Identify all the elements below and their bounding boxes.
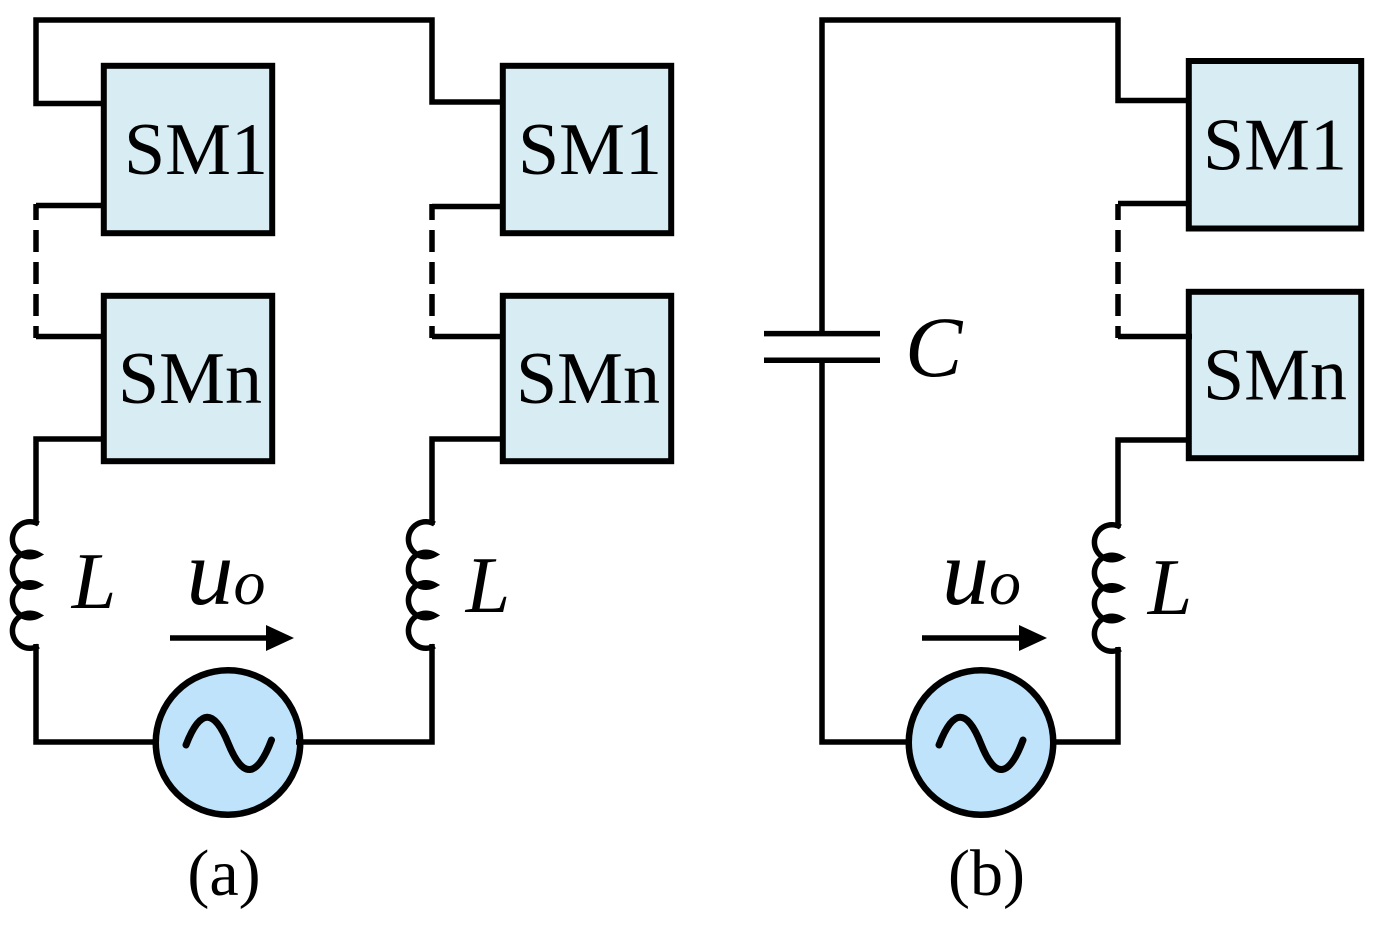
wire: dashed link SM1..SMn (b)	[1115, 204, 1121, 338]
ac source sine symbol (b)	[939, 717, 1023, 769]
wire: bottom rail right of source (a)	[296, 644, 432, 742]
wire: capacitor down to bottom rail (b)	[822, 358, 912, 742]
inductor L (a, left arm)	[12, 522, 38, 649]
submodule SM1 (a, right arm)	[503, 66, 671, 233]
wire: SMn lower-left down to inductor (a, left arm)	[36, 439, 104, 525]
inductor L (a, right arm)	[408, 522, 434, 648]
wire: inductor up to SMn (b)	[1118, 440, 1192, 528]
svg-text:(b): (b)	[948, 837, 1025, 910]
wire: circuit (a) top bus connecting both arms	[36, 20, 503, 104]
wire: stub from SM1 lower-left (a, right arm)	[432, 204, 505, 210]
svg-text:(a): (a)	[187, 837, 260, 910]
svg-text:SMn: SMn	[1203, 335, 1347, 417]
wire: circuit (b) top bus	[822, 20, 1192, 336]
submodule SM1 (b)	[1189, 61, 1361, 229]
wire: dashed link SM1..SMn (a, right arm)	[429, 204, 435, 338]
svg-text:L: L	[71, 538, 117, 626]
capacitor C (b)	[764, 334, 880, 361]
submodule SMn (a, right arm)	[503, 296, 671, 461]
ac source U1 (a)	[156, 670, 301, 815]
wire: stub into SMn upper-left (a, left arm)	[36, 334, 104, 340]
wire: bottom rail right of source (b)	[1050, 647, 1118, 742]
svg-text:uo: uo	[942, 521, 1021, 625]
submodule SMn (b)	[1189, 292, 1361, 458]
ac source U2 (b)	[909, 670, 1054, 815]
ac source sine symbol (a)	[186, 717, 272, 769]
wire: stub from SM1 lower-left (a, left arm)	[36, 203, 104, 209]
svg-text:SM1: SM1	[518, 109, 662, 191]
wire: stub into SMn upper-left (a, right arm)	[432, 334, 505, 340]
svg-text:SM1: SM1	[124, 109, 268, 191]
wire: SMn lower-left down to inductor (a, right arm)	[432, 439, 505, 525]
arrow: output voltage direction (b)	[922, 635, 1021, 641]
svg-text:SMn: SMn	[118, 338, 262, 420]
svg-text:L: L	[465, 542, 511, 630]
svg-text:SM1: SM1	[1203, 105, 1347, 187]
svg-text:SMn: SMn	[516, 338, 660, 420]
svg-text:C: C	[905, 299, 964, 395]
wire: inductor to bottom rail (a, left arm)	[36, 644, 160, 742]
svg-text:L: L	[1147, 544, 1193, 632]
submodule SMn (a, left arm)	[104, 296, 272, 461]
submodule SM1 (a, left arm)	[104, 66, 272, 233]
wire: stub from SM1 lower-left (b)	[1118, 201, 1192, 207]
arrow: output voltage direction (a)	[170, 635, 268, 641]
svg-text:uo: uo	[187, 521, 266, 625]
inductor L (b)	[1094, 525, 1120, 651]
wire: stub into SMn upper-left (b)	[1118, 334, 1192, 340]
wire: dashed link SM1..SMn (a, left arm)	[33, 204, 39, 338]
